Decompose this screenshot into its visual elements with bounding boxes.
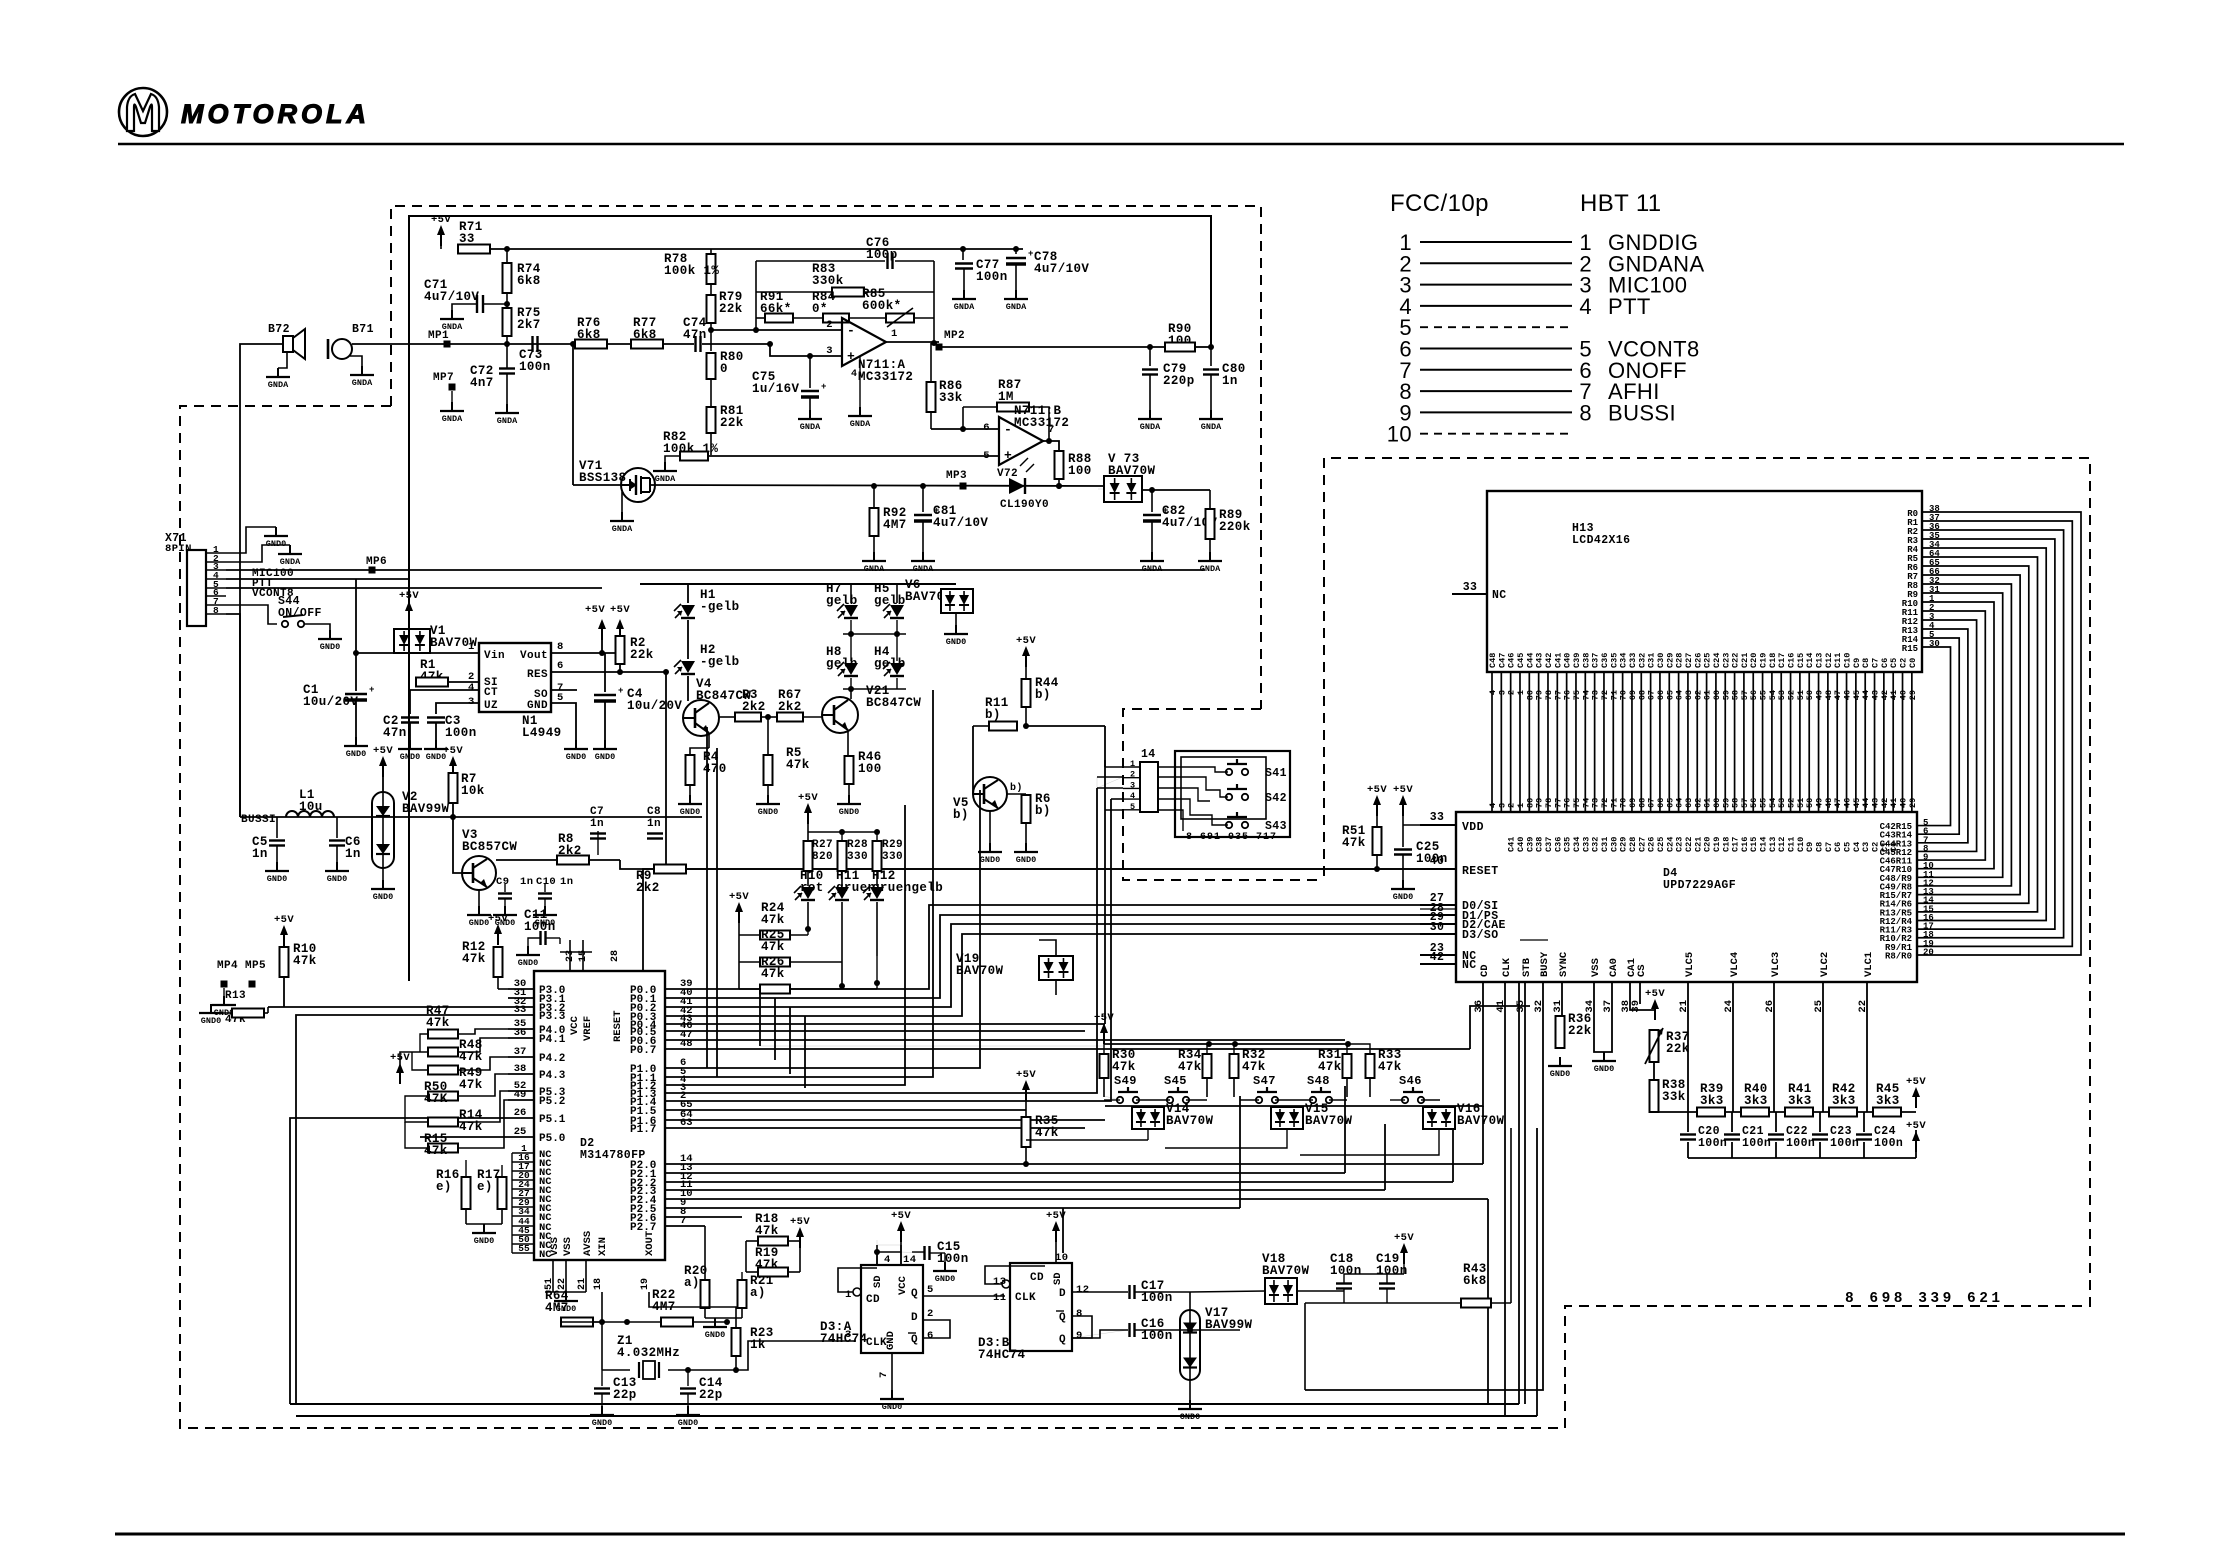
svg-text:10k: 10k <box>461 784 485 798</box>
ground R82 <box>664 462 666 471</box>
svg-text:GND0: GND0 <box>882 1402 902 1412</box>
svg-text:8 698 339 621: 8 698 339 621 <box>1845 1291 2004 1307</box>
capacitor C14 22p <box>687 1370 689 1386</box>
wire CA1 CS to +5V <box>1630 982 1654 1010</box>
svg-text:MP2: MP2 <box>944 330 965 342</box>
svg-text:+5V: +5V <box>1906 1120 1926 1132</box>
svg-text:BAV99W: BAV99W <box>1205 1318 1253 1332</box>
svg-text:8: 8 <box>1579 400 1592 425</box>
svg-text:S42: S42 <box>1265 792 1287 805</box>
svg-text:R27: R27 <box>812 839 833 851</box>
svg-text:GNDA: GNDA <box>352 378 373 388</box>
LCD pin 33 NC <box>1452 593 1487 595</box>
wire op-amp B plus input <box>708 455 999 457</box>
svg-text:100n: 100n <box>976 270 1008 284</box>
svg-text:Q: Q <box>1059 1312 1066 1324</box>
svg-text:a): a) <box>750 1286 766 1300</box>
wire V5 collector <box>1007 793 1026 795</box>
ground C80 <box>1210 410 1212 419</box>
resistor R6 b) <box>1022 795 1031 823</box>
wire CLK down <box>1504 982 1506 1416</box>
capacitor C22 100n <box>1775 1112 1777 1132</box>
D2 pin NC 16 <box>512 1161 534 1163</box>
svg-text:22p: 22p <box>613 1388 637 1402</box>
svg-text:CD: CD <box>866 1294 880 1306</box>
svg-text:VLC2: VLC2 <box>1819 952 1831 977</box>
resistor R92 4M7 <box>870 508 879 536</box>
wire Vin rail <box>356 652 480 654</box>
svg-text:2k2: 2k2 <box>636 881 660 895</box>
diode V2 BAV99W <box>372 792 394 868</box>
svg-text:GNDA: GNDA <box>954 302 975 312</box>
wire gate V71 <box>572 344 574 485</box>
wire op-amp A output <box>886 341 939 343</box>
wire UZ to C3 <box>436 703 479 714</box>
svg-text:VLC5: VLC5 <box>1684 952 1696 977</box>
svg-text:1n: 1n <box>520 876 533 888</box>
capacitor C80 1n <box>1210 347 1212 366</box>
resistor R15 47k <box>428 1144 458 1153</box>
svg-text:47k: 47k <box>1342 836 1366 850</box>
wire X71 pin2 ground <box>226 545 290 562</box>
svg-text:+5V: +5V <box>790 1216 810 1228</box>
svg-text:SD: SD <box>872 1275 884 1288</box>
wire H2 to V4 collector <box>687 676 689 701</box>
svg-text:GND0: GND0 <box>1180 1412 1200 1422</box>
svg-text:P1.7: P1.7 <box>630 1124 656 1136</box>
svg-text:22k: 22k <box>1568 1024 1592 1038</box>
op-amp N711:A MC33172 <box>842 318 886 366</box>
svg-text:NC: NC <box>1492 589 1507 602</box>
capacitor C81 4u7/10V <box>922 486 924 512</box>
wire MIC100 long <box>226 569 1205 571</box>
svg-text:b): b) <box>1035 688 1051 702</box>
svg-text:22k: 22k <box>630 648 654 662</box>
svg-text:3k3: 3k3 <box>1876 1094 1900 1108</box>
resistor R28 330 <box>838 841 847 871</box>
D2 pin NC 20 <box>512 1179 534 1181</box>
ground C15 <box>944 1262 946 1271</box>
capacitor C21 100n <box>1731 1112 1733 1132</box>
D2 pin P5.2 49 <box>508 1099 534 1101</box>
resistor R29 330 <box>873 841 882 871</box>
wire MP2 to R90 <box>939 346 1164 348</box>
svg-text:GNDA: GNDA <box>913 564 934 574</box>
wire Q12 to C17 <box>1072 1291 1128 1293</box>
svg-text:4n7: 4n7 <box>470 376 494 390</box>
svg-text:47k: 47k <box>761 913 785 927</box>
svg-text:1: 1 <box>891 328 898 340</box>
VLC bias ladder wire <box>1654 1111 1916 1113</box>
wire V5 base <box>972 726 974 794</box>
svg-text:GND: GND <box>527 700 548 712</box>
D4 pin D2/CAE 29 <box>1420 923 1456 925</box>
D4 pin D1/PS 28 <box>1420 914 1456 916</box>
svg-text:BAV70W: BAV70W <box>956 964 1004 978</box>
svg-text:C7: C7 <box>590 806 604 818</box>
svg-text:5: 5 <box>927 1284 934 1296</box>
svg-text:GND0: GND0 <box>327 874 347 884</box>
svg-text:+5V: +5V <box>729 891 749 903</box>
D4 pin VDD <box>1420 824 1456 826</box>
svg-text:47k: 47k <box>1378 1060 1402 1074</box>
wire LED matrix to V21 <box>843 688 906 690</box>
svg-text:-: - <box>1004 422 1012 437</box>
svg-text:8: 8 <box>213 605 219 616</box>
svg-text:+5V: +5V <box>443 745 463 757</box>
svg-text:b): b) <box>1035 804 1051 818</box>
LCD driver D4 UPD7229AGF <box>1456 812 1917 982</box>
svg-text:3: 3 <box>1130 780 1135 790</box>
svg-text:S45: S45 <box>1164 1074 1187 1088</box>
svg-text:C8: C8 <box>647 806 661 818</box>
svg-text:GNDA: GNDA <box>268 380 289 390</box>
svg-text:b): b) <box>985 708 1001 722</box>
D2 pin P4.0 35 <box>508 1028 534 1030</box>
wire MP6 vertical <box>355 579 357 653</box>
svg-text:100n: 100n <box>1874 1137 1903 1150</box>
ground under VSS CA0 <box>1603 1052 1605 1061</box>
svg-text:7: 7 <box>878 1371 890 1378</box>
LCD to driver bus (46 lines) <box>1491 672 1493 812</box>
svg-text:100n: 100n <box>445 726 477 740</box>
bus P1.5-P1.7 long lines <box>665 1109 1026 1111</box>
svg-text:4u7/10V: 4u7/10V <box>424 290 479 304</box>
svg-text:100n: 100n <box>1786 1137 1815 1150</box>
svg-text:330: 330 <box>847 851 868 863</box>
svg-text:1n: 1n <box>252 847 268 861</box>
svg-text:6k8: 6k8 <box>1463 1274 1487 1288</box>
svg-text:GND0: GND0 <box>595 752 615 762</box>
capacitor C15 100n <box>923 1246 925 1260</box>
svg-text:VSS: VSS <box>562 1237 574 1256</box>
resistor R8 2k2 <box>496 859 558 861</box>
wire Q9 to C16 <box>1072 1330 1128 1338</box>
svg-text:GND0: GND0 <box>592 1418 612 1428</box>
ground C3 <box>435 740 437 749</box>
switch box S41-S43 <box>1175 751 1290 837</box>
capacitor C10 1n <box>544 884 546 892</box>
svg-text:74HC74: 74HC74 <box>978 1348 1026 1362</box>
svg-text:STB: STB <box>1521 957 1533 977</box>
resistor R38 33k <box>1650 1080 1659 1112</box>
svg-text:VLC4: VLC4 <box>1729 952 1741 977</box>
ground V6 <box>955 613 957 625</box>
wire PTT <box>226 578 409 580</box>
feedback network op-amp A <box>755 261 757 330</box>
svg-text:PTT: PTT <box>1608 294 1651 319</box>
switch S49 <box>1117 1097 1123 1103</box>
D2 pin P3.3 33 <box>508 1014 534 1016</box>
svg-text:470: 470 <box>703 762 727 776</box>
svg-text:10u/20V: 10u/20V <box>627 699 682 713</box>
D2 pin P3.1 31 <box>508 997 534 999</box>
svg-text:1n: 1n <box>1222 374 1238 388</box>
svg-text:33k: 33k <box>939 391 963 405</box>
svg-text:MP3: MP3 <box>946 470 967 482</box>
svg-text:Q: Q <box>911 1288 918 1300</box>
wire R9 to reset line <box>686 868 1420 870</box>
LED rail <box>640 583 956 585</box>
svg-text:26: 26 <box>514 1107 527 1119</box>
wire X71 pin8 down <box>226 614 240 817</box>
ground V5 <box>989 811 991 843</box>
svg-text:AVSS: AVSS <box>582 1231 594 1256</box>
svg-text:3: 3 <box>826 345 833 357</box>
svg-text:BC847CW: BC847CW <box>866 696 921 710</box>
wire BUSY down <box>1305 982 1543 1390</box>
svg-text:CLK: CLK <box>1015 1292 1036 1304</box>
ground R5 <box>767 795 769 804</box>
ground C81 <box>922 552 924 561</box>
D4 pin RESET <box>1420 868 1456 870</box>
wire op-amp B minus <box>931 428 999 430</box>
wire R23 to CLK D3A <box>736 1341 856 1370</box>
svg-text:GND0: GND0 <box>680 807 700 817</box>
svg-text:28: 28 <box>610 950 621 962</box>
resistor R34 47k <box>1203 1054 1212 1078</box>
svg-text:GNDA: GNDA <box>1200 564 1221 574</box>
svg-text:GNDA: GNDA <box>1142 564 1163 574</box>
svg-text:1: 1 <box>845 1289 852 1301</box>
capacitor C16 100n <box>1128 1323 1130 1337</box>
svg-text:12: 12 <box>1076 1284 1089 1296</box>
wire Q to CLK D3B <box>923 1295 1005 1297</box>
wire caps top rail <box>1344 1274 1387 1283</box>
svg-text:4: 4 <box>851 369 857 380</box>
svg-text:+: + <box>618 686 624 696</box>
svg-text:C9: C9 <box>496 876 509 888</box>
D2 pin NC 45 <box>512 1234 534 1236</box>
svg-text:e): e) <box>477 1180 493 1194</box>
svg-text:33: 33 <box>1463 581 1478 594</box>
diode V14 BAV70W <box>1132 1107 1164 1129</box>
svg-text:1n: 1n <box>590 818 604 830</box>
bus P0.4-P0.7 long lines <box>665 1023 1105 1025</box>
capacitor C73 100n <box>531 336 533 352</box>
svg-text:GND: GND <box>885 1331 897 1350</box>
svg-text:4M7: 4M7 <box>883 518 907 532</box>
svg-text:e): e) <box>436 1180 452 1194</box>
wire VSS+CA0 to ground <box>1594 982 1612 1052</box>
svg-text:22k: 22k <box>1666 1042 1690 1056</box>
resistor R14 47k <box>428 1118 458 1127</box>
resistor R49 47k <box>428 1066 458 1075</box>
wires H10-H12 down <box>807 902 809 929</box>
svg-text:3k3: 3k3 <box>1788 1094 1812 1108</box>
svg-text:BUSSI: BUSSI <box>241 814 276 826</box>
resistor R80 0 <box>707 353 716 379</box>
svg-text:14: 14 <box>903 1254 916 1266</box>
resistor R32 47k <box>1230 1054 1239 1078</box>
svg-text:330: 330 <box>882 851 903 863</box>
svg-text:GND0: GND0 <box>320 642 340 652</box>
ground C77 <box>963 290 965 299</box>
svg-text:220p: 220p <box>1163 374 1195 388</box>
D2 pin NC 44 <box>512 1225 534 1227</box>
svg-text:GND0: GND0 <box>566 752 586 762</box>
microcontroller D2 M314780FP <box>534 971 665 1260</box>
capacitor C8 1n <box>647 832 663 834</box>
X71 pin 5 <box>206 587 226 589</box>
svg-text:-: - <box>847 323 855 338</box>
svg-text:18: 18 <box>593 1278 604 1290</box>
svg-text:2k2: 2k2 <box>558 844 582 858</box>
wire op-amp B output <box>1043 440 1049 442</box>
svg-text:GND0: GND0 <box>946 637 966 647</box>
svg-text:UPD7229AGF: UPD7229AGF <box>1663 879 1736 892</box>
svg-text:GND0: GND0 <box>474 1236 494 1246</box>
ground MP4 <box>223 988 225 996</box>
svg-text:BAV70W: BAV70W <box>1262 1264 1310 1278</box>
svg-text:4: 4 <box>1130 791 1135 801</box>
wire RESET up to D4 <box>643 869 1420 971</box>
wire SYNC to R36 <box>1561 982 1563 1016</box>
flip-flop D3:A 74HC74 <box>861 1265 923 1353</box>
diode V15 BAV70W <box>1271 1107 1303 1129</box>
D2 pin NC 34 <box>512 1215 534 1217</box>
svg-text:+5V: +5V <box>274 914 294 926</box>
svg-text:47k: 47k <box>459 1078 483 1092</box>
svg-text:+5V: +5V <box>373 745 393 757</box>
ground C4 <box>604 740 606 749</box>
D4 pin NC 42 <box>1420 963 1456 965</box>
ground B72 <box>278 352 287 368</box>
svg-text:MC33172: MC33172 <box>858 370 913 384</box>
X71 pin 6 <box>206 595 226 597</box>
wire P3.2 to R13 <box>268 1006 508 1008</box>
svg-text:GNDA: GNDA <box>1006 302 1027 312</box>
ground R20 R21 <box>714 1318 716 1327</box>
svg-text:CT: CT <box>484 687 498 699</box>
svg-text:BAV70W: BAV70W <box>1166 1114 1214 1128</box>
svg-text:47k: 47k <box>293 954 317 968</box>
svg-text:S49: S49 <box>1114 1074 1137 1088</box>
capacitor C20 100n <box>1687 1112 1689 1132</box>
wire V18 to C18 <box>1297 1290 1344 1292</box>
resistor R9 2k2 <box>654 865 686 874</box>
resistor R86 33k <box>927 382 936 412</box>
D2 pin P4.3 38 <box>508 1073 534 1075</box>
svg-text:VLC3: VLC3 <box>1770 952 1782 977</box>
svg-text:GND0: GND0 <box>1393 892 1413 902</box>
resistor R75 2k7 <box>503 308 512 336</box>
capacitor C23 100n <box>1819 1112 1821 1132</box>
svg-text:LCD42X16: LCD42X16 <box>1572 534 1630 547</box>
svg-text:6k8: 6k8 <box>517 274 541 288</box>
D2 pin P3.2 32 <box>508 1006 534 1008</box>
svg-text:FCC/10p: FCC/10p <box>1390 190 1489 217</box>
svg-text:GND0: GND0 <box>469 918 489 928</box>
D2 pin P5.3 52 <box>508 1090 534 1092</box>
ground C1 <box>355 737 357 746</box>
capacitor C24 100n <box>1863 1112 1865 1132</box>
ground C14 <box>687 1406 689 1415</box>
svg-text:GNDA: GNDA <box>655 474 676 484</box>
LCD module H13 LCD42X16 <box>1487 491 1922 672</box>
capacitor C79 220p <box>1149 347 1151 366</box>
wire P5.1 left <box>290 1118 508 1404</box>
svg-text:VLC1: VLC1 <box>1863 952 1875 977</box>
wire R11 to connector <box>1026 725 1105 727</box>
diode V17 BAV99W <box>1180 1310 1200 1380</box>
ground C78 <box>1015 290 1017 299</box>
svg-text:10: 10 <box>1055 1252 1068 1264</box>
wire base V3 <box>452 817 454 873</box>
svg-text:1: 1 <box>468 641 475 653</box>
svg-text:100n: 100n <box>1698 1137 1727 1150</box>
svg-text:R8/R0: R8/R0 <box>1885 951 1912 961</box>
svg-text:P4.1: P4.1 <box>539 1034 566 1046</box>
svg-text:CS: CS <box>1636 964 1648 977</box>
svg-text:5: 5 <box>1130 802 1135 812</box>
switch S48 <box>1310 1097 1316 1103</box>
svg-text:UZ: UZ <box>484 700 498 712</box>
D2 pin P4.1 36 <box>508 1037 534 1039</box>
svg-text:74HC74: 74HC74 <box>820 1332 868 1346</box>
svg-text:47k: 47k <box>786 758 810 772</box>
svg-text:b): b) <box>953 808 969 822</box>
resistor R33 47k <box>1366 1054 1375 1078</box>
svg-text:100n: 100n <box>1330 1264 1362 1278</box>
svg-text:P5.1: P5.1 <box>539 1114 566 1126</box>
svg-text:+: + <box>1028 249 1034 259</box>
switch S43 <box>1226 822 1232 828</box>
bus P0.0-P0.3 to display data lines <box>665 905 1420 989</box>
svg-text:49: 49 <box>514 1089 527 1101</box>
svg-text:2k7: 2k7 <box>517 318 541 332</box>
wire GND D3A <box>891 1353 893 1390</box>
wire VCONT8 long <box>226 587 602 589</box>
svg-text:1n: 1n <box>647 818 661 830</box>
svg-text:8PIN: 8PIN <box>165 543 192 555</box>
capacitor C25 100n <box>1402 816 1404 847</box>
resistor R88 100 <box>1055 451 1064 479</box>
svg-text:R15: R15 <box>1902 644 1918 654</box>
D4 pin D3/SO 30 <box>1420 933 1456 935</box>
wire S44 to ground <box>304 624 330 630</box>
svg-text:VCC: VCC <box>569 1015 581 1035</box>
dashed box keypad connector <box>1123 709 1324 880</box>
wire XOUT down <box>649 1292 736 1328</box>
svg-text:MC33172: MC33172 <box>1014 416 1069 430</box>
ground R13 <box>210 1004 212 1013</box>
svg-text:+5V: +5V <box>1046 1210 1066 1222</box>
svg-text:MP6: MP6 <box>366 556 387 568</box>
diode V1 BAV70W <box>394 629 430 653</box>
svg-text:MP5: MP5 <box>245 960 266 972</box>
svg-text:S48: S48 <box>1307 1074 1330 1088</box>
ground R4 <box>689 795 691 804</box>
D2 pin NC 27 <box>512 1197 534 1199</box>
resistor R4 470 <box>686 755 695 785</box>
svg-text:100: 100 <box>1068 464 1092 478</box>
switch S45 <box>1167 1097 1173 1103</box>
wire CD down-left <box>1105 982 1483 1106</box>
svg-text:SYNC: SYNC <box>1558 951 1570 977</box>
svg-text:GND0: GND0 <box>678 1418 698 1428</box>
svg-text:6: 6 <box>927 1330 934 1342</box>
svg-text:SD: SD <box>1052 1272 1064 1285</box>
svg-text:2: 2 <box>927 1308 934 1320</box>
svg-text:+5V: +5V <box>1393 784 1413 796</box>
svg-text:3: 3 <box>468 696 475 708</box>
svg-text:GND0: GND0 <box>346 749 366 759</box>
svg-text:MP4: MP4 <box>217 960 238 972</box>
resistor R51 47k <box>1373 827 1382 855</box>
ground R16 R17 <box>465 1209 467 1224</box>
svg-text:2: 2 <box>826 319 833 331</box>
